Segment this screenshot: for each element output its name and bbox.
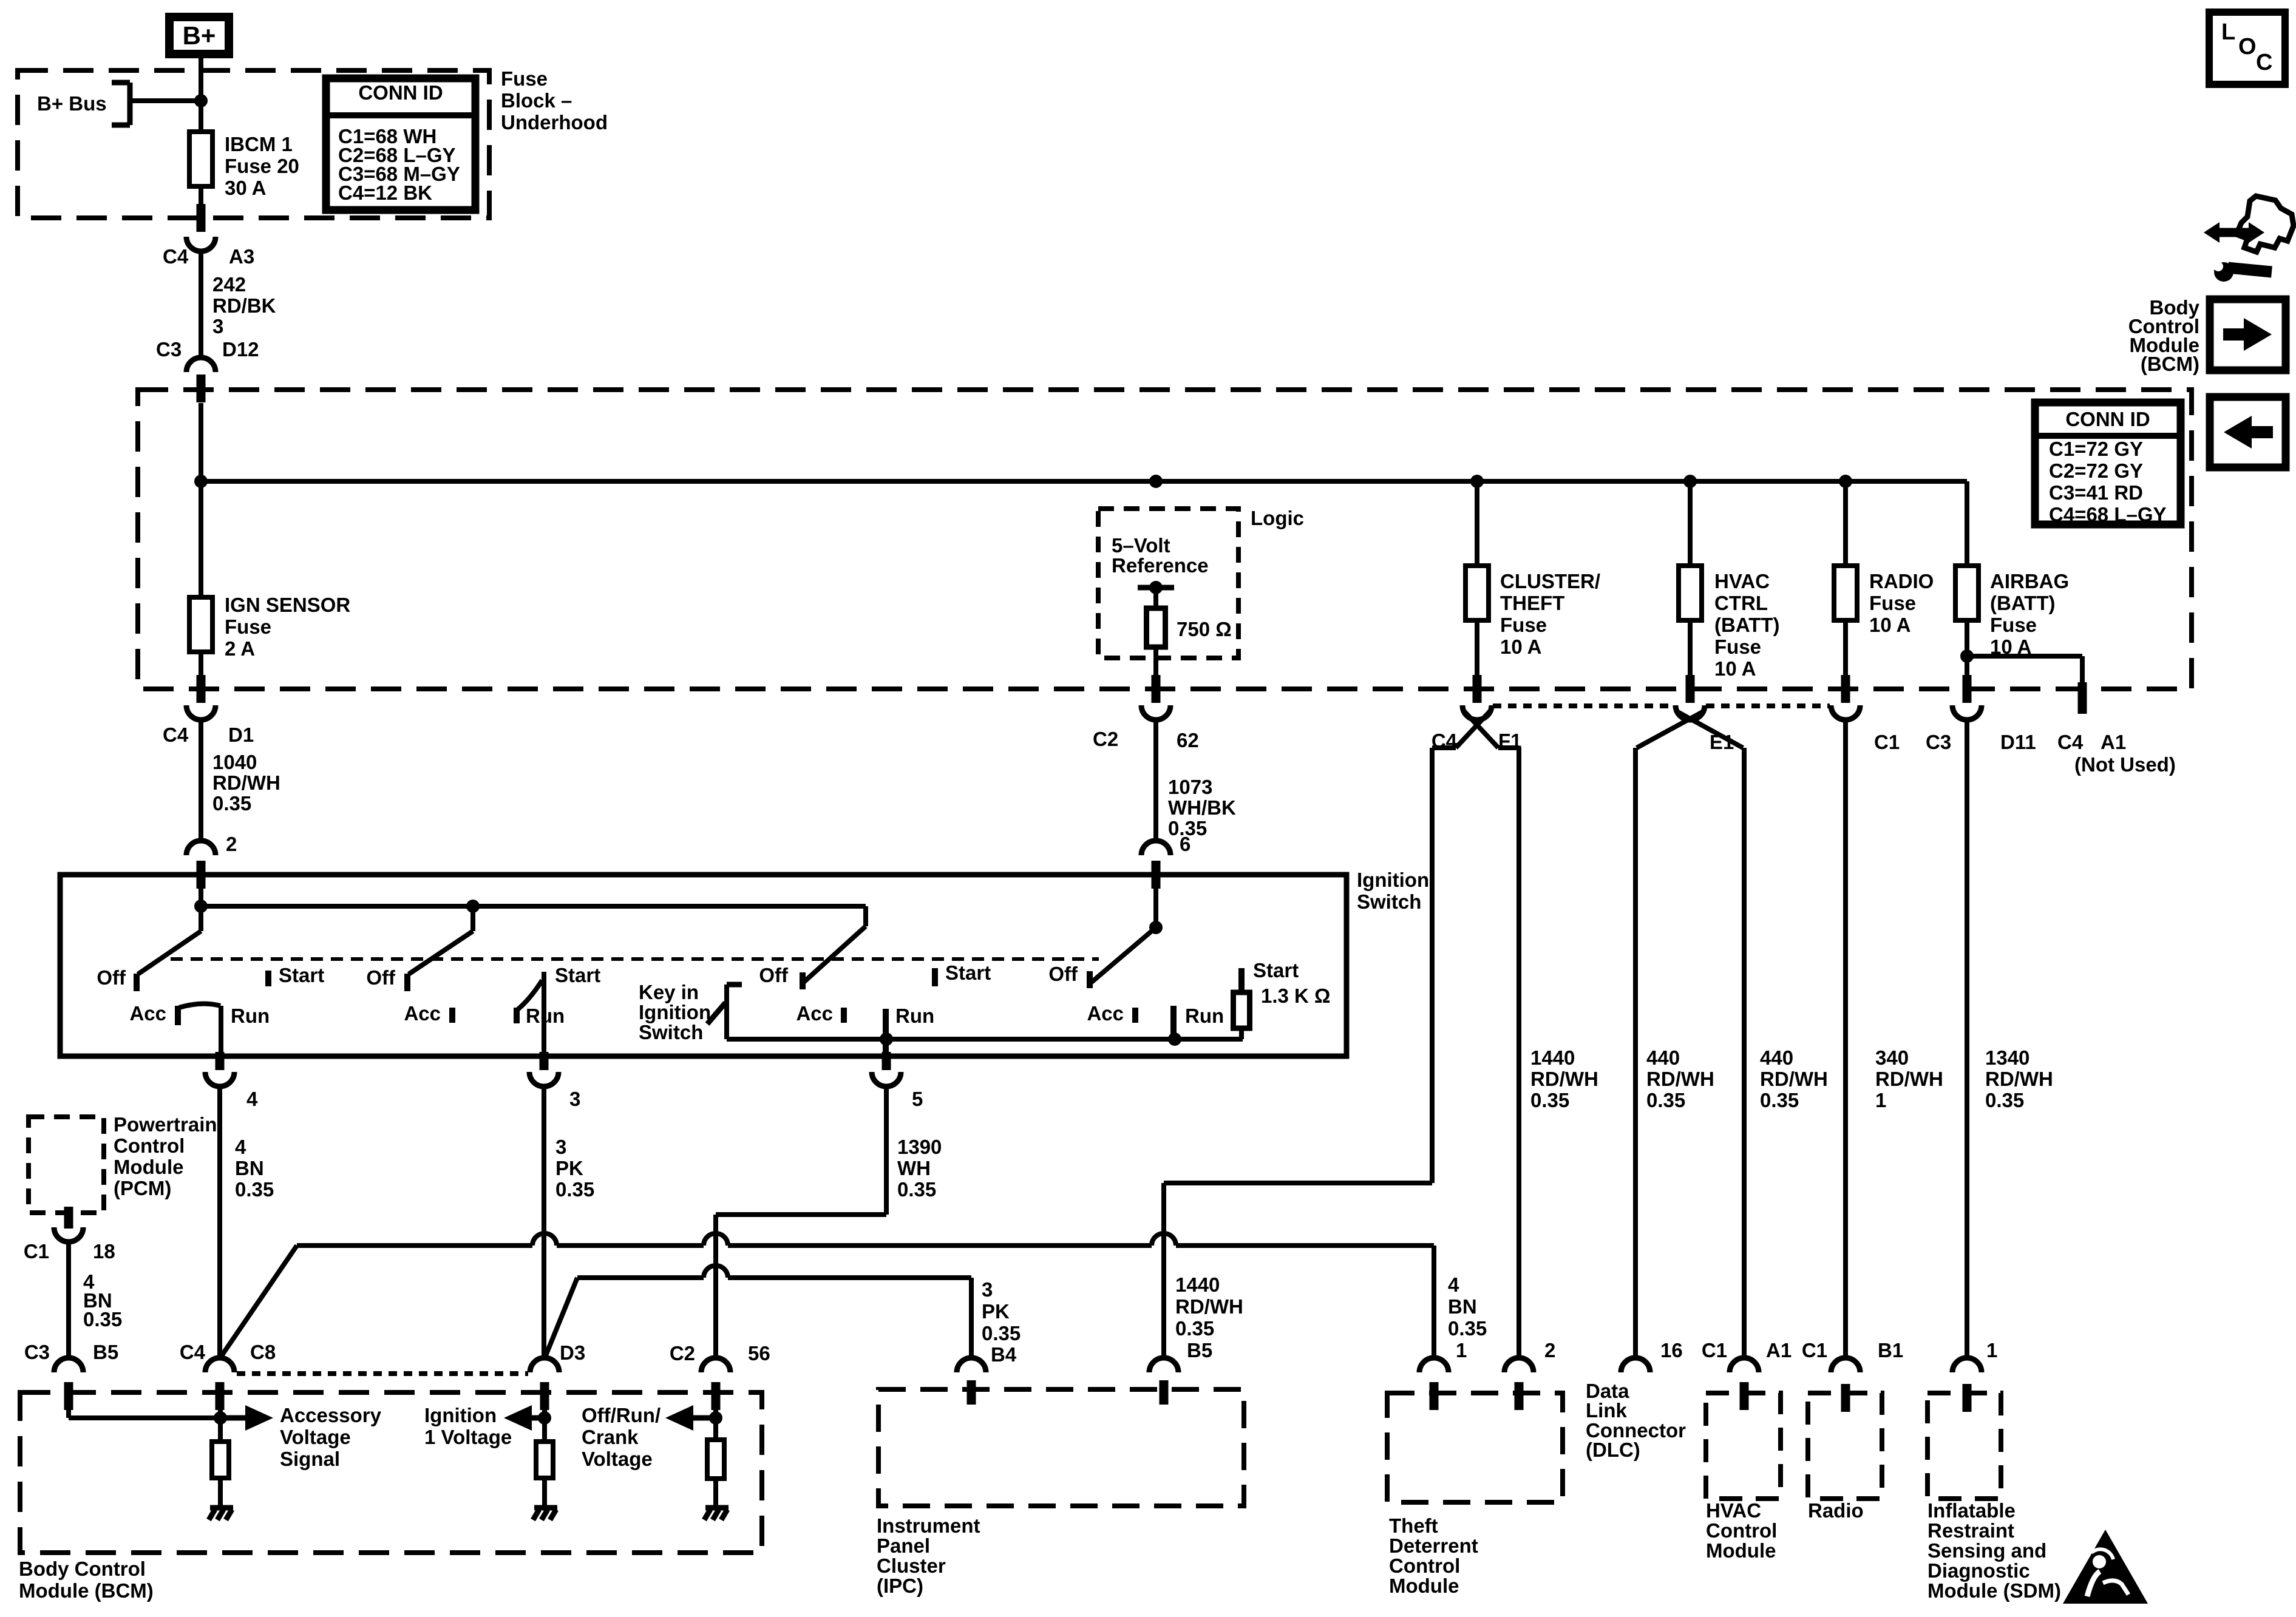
svg-text:0.35: 0.35	[897, 1178, 936, 1201]
svg-text:WH: WH	[897, 1157, 931, 1179]
svg-text:0.35: 0.35	[1760, 1089, 1799, 1111]
svg-text:Key in: Key in	[639, 981, 699, 1003]
svg-text:HVAC: HVAC	[1706, 1499, 1761, 1522]
svg-text:THEFT: THEFT	[1500, 592, 1564, 614]
svg-text:Diagnostic: Diagnostic	[1927, 1559, 2030, 1582]
svg-text:Ignition: Ignition	[1357, 869, 1429, 891]
svg-text:Off: Off	[366, 966, 396, 989]
svg-text:(PCM): (PCM)	[114, 1177, 171, 1199]
svg-text:A1: A1	[1766, 1339, 1792, 1361]
svg-text:B5: B5	[93, 1341, 118, 1363]
svg-text:Fuse: Fuse	[1500, 614, 1547, 636]
svg-text:Signal: Signal	[280, 1448, 340, 1470]
svg-text:C: C	[2256, 50, 2272, 75]
svg-text:4: 4	[235, 1136, 246, 1158]
svg-text:1340: 1340	[1985, 1046, 2029, 1069]
svg-text:A1: A1	[2101, 731, 2126, 753]
svg-text:Acc: Acc	[796, 1002, 833, 1025]
svg-text:O: O	[2238, 34, 2257, 59]
svg-text:C3: C3	[24, 1341, 50, 1363]
svg-text:Cluster: Cluster	[877, 1554, 946, 1577]
svg-text:C2=72 GY: C2=72 GY	[2049, 459, 2143, 482]
svg-text:(IPC): (IPC)	[877, 1575, 923, 1597]
svg-text:RADIO: RADIO	[1869, 570, 1934, 592]
svg-text:750 Ω: 750 Ω	[1177, 618, 1232, 640]
svg-text:18: 18	[93, 1240, 115, 1263]
svg-text:Deterrent: Deterrent	[1389, 1534, 1478, 1557]
svg-text:Inflatable: Inflatable	[1927, 1499, 2016, 1522]
svg-text:242: 242	[212, 273, 246, 296]
svg-text:Crank: Crank	[582, 1426, 639, 1448]
svg-text:16: 16	[1660, 1339, 1683, 1361]
svg-text:Off: Off	[97, 966, 126, 989]
svg-text:Voltage: Voltage	[582, 1448, 653, 1470]
svg-text:Module: Module	[114, 1156, 183, 1178]
svg-text:(BCM): (BCM)	[2141, 353, 2199, 375]
svg-text:0.35: 0.35	[1985, 1089, 2024, 1111]
svg-text:C3: C3	[1926, 731, 1951, 753]
svg-text:Fuse: Fuse	[501, 67, 548, 90]
svg-text:RD/WH: RD/WH	[1985, 1068, 2053, 1090]
svg-text:4: 4	[1448, 1273, 1459, 1296]
svg-text:C1=72 GY: C1=72 GY	[2049, 438, 2143, 460]
svg-text:Fuse: Fuse	[225, 615, 271, 638]
svg-text:RD/BK: RD/BK	[212, 294, 276, 317]
svg-text:RD/WH: RD/WH	[1760, 1068, 1828, 1090]
svg-text:PK: PK	[982, 1300, 1010, 1323]
svg-text:Acc: Acc	[404, 1002, 441, 1025]
svg-text:Ignition: Ignition	[639, 1001, 711, 1023]
svg-text:2 A: 2 A	[225, 637, 255, 660]
svg-text:1: 1	[1986, 1339, 1997, 1361]
svg-text:C3: C3	[156, 338, 182, 361]
svg-text:C1: C1	[24, 1240, 49, 1263]
svg-text:C2: C2	[1093, 728, 1118, 750]
svg-text:C4=12 BK: C4=12 BK	[338, 181, 432, 204]
svg-text:Panel: Panel	[877, 1534, 930, 1557]
svg-text:C4: C4	[163, 245, 189, 268]
svg-text:0.35: 0.35	[212, 792, 251, 815]
svg-text:Start: Start	[555, 964, 600, 986]
svg-text:C1: C1	[1702, 1339, 1727, 1361]
svg-text:RD/WH: RD/WH	[1175, 1295, 1243, 1318]
svg-text:C4: C4	[180, 1341, 206, 1363]
svg-text:Reference: Reference	[1112, 554, 1209, 577]
svg-text:RD/WH: RD/WH	[1646, 1068, 1714, 1090]
svg-text:C1: C1	[1874, 731, 1900, 753]
svg-text:Module (SDM): Module (SDM)	[1927, 1579, 2061, 1602]
svg-text:3: 3	[569, 1088, 580, 1110]
svg-text:5: 5	[912, 1088, 923, 1110]
svg-text:RD/WH: RD/WH	[1530, 1068, 1598, 1090]
svg-text:Switch: Switch	[639, 1021, 703, 1043]
svg-text:Instrument: Instrument	[877, 1514, 980, 1537]
svg-text:B4: B4	[991, 1343, 1017, 1366]
svg-text:RD/WH: RD/WH	[1875, 1068, 1943, 1090]
svg-text:440: 440	[1760, 1046, 1793, 1069]
svg-text:HVAC: HVAC	[1714, 570, 1770, 592]
svg-text:Link: Link	[1586, 1399, 1627, 1422]
svg-text:Start: Start	[1253, 959, 1299, 981]
svg-text:0.35: 0.35	[83, 1308, 122, 1331]
svg-text:Underhood: Underhood	[501, 111, 608, 134]
svg-text:Radio: Radio	[1808, 1499, 1864, 1522]
svg-text:Accessory: Accessory	[280, 1404, 382, 1426]
svg-text:1: 1	[1875, 1089, 1886, 1111]
svg-text:Acc: Acc	[129, 1002, 166, 1025]
svg-text:0.35: 0.35	[1448, 1317, 1487, 1340]
svg-text:Fuse 20: Fuse 20	[225, 155, 299, 177]
svg-text:C4=68 L–GY: C4=68 L–GY	[2049, 503, 2167, 526]
svg-text:RD/WH: RD/WH	[212, 771, 280, 794]
svg-text:C4: C4	[163, 724, 189, 746]
svg-text:Block –: Block –	[501, 89, 572, 112]
svg-text:Module (BCM): Module (BCM)	[19, 1579, 154, 1602]
svg-text:2: 2	[1544, 1339, 1555, 1361]
svg-text:Module: Module	[1706, 1539, 1776, 1562]
svg-text:Control: Control	[1706, 1519, 1777, 1542]
svg-text:3: 3	[982, 1278, 993, 1301]
svg-text:(BATT): (BATT)	[1990, 592, 2056, 614]
svg-text:Run: Run	[231, 1005, 270, 1027]
svg-text:Module: Module	[1389, 1575, 1459, 1597]
svg-text:(DLC): (DLC)	[1586, 1439, 1640, 1461]
svg-text:BN: BN	[235, 1157, 264, 1179]
svg-text:Off: Off	[1048, 963, 1078, 985]
svg-text:CLUSTER/: CLUSTER/	[1500, 570, 1600, 592]
svg-text:1440: 1440	[1175, 1273, 1220, 1296]
svg-text:5–Volt: 5–Volt	[1112, 534, 1170, 557]
svg-text:1040: 1040	[212, 751, 257, 773]
svg-text:D12: D12	[222, 338, 259, 361]
svg-text:1390: 1390	[897, 1136, 942, 1158]
svg-text:Control: Control	[114, 1134, 185, 1157]
svg-text:0.35: 0.35	[1530, 1089, 1569, 1111]
svg-text:C8: C8	[250, 1341, 276, 1363]
svg-text:Powertrain: Powertrain	[114, 1113, 217, 1136]
svg-text:1.3 K Ω: 1.3 K Ω	[1261, 985, 1331, 1007]
svg-text:Theft: Theft	[1389, 1514, 1438, 1537]
svg-text:PK: PK	[555, 1157, 583, 1179]
svg-text:Run: Run	[1185, 1005, 1224, 1027]
svg-text:0.35: 0.35	[555, 1178, 594, 1201]
svg-text:D1: D1	[228, 724, 254, 746]
svg-text:Voltage: Voltage	[280, 1426, 351, 1448]
svg-text:Body Control: Body Control	[19, 1558, 146, 1580]
svg-text:10 A: 10 A	[1714, 657, 1756, 680]
svg-text:1440: 1440	[1530, 1046, 1575, 1069]
svg-text:3: 3	[212, 315, 223, 337]
svg-text:Fuse: Fuse	[1714, 636, 1761, 658]
svg-text:IBCM 1: IBCM 1	[225, 133, 293, 155]
svg-text:1: 1	[1456, 1339, 1467, 1361]
svg-text:0.35: 0.35	[1646, 1089, 1685, 1111]
svg-text:Acc: Acc	[1087, 1002, 1124, 1025]
svg-text:(Not Used): (Not Used)	[2074, 753, 2176, 776]
svg-text:D11: D11	[2000, 731, 2036, 753]
svg-text:0.35: 0.35	[1175, 1317, 1214, 1340]
svg-text:Off/Run/: Off/Run/	[582, 1404, 661, 1426]
svg-text:56: 56	[748, 1342, 770, 1364]
svg-text:BN: BN	[1448, 1295, 1477, 1318]
svg-text:(BATT): (BATT)	[1714, 614, 1780, 636]
svg-text:C3=41 RD: C3=41 RD	[2049, 481, 2143, 504]
svg-text:0.35: 0.35	[235, 1178, 274, 1201]
svg-text:Ignition: Ignition	[424, 1404, 497, 1426]
svg-text:A3: A3	[229, 245, 254, 268]
svg-text:D3: D3	[560, 1341, 585, 1364]
svg-text:4: 4	[246, 1088, 258, 1110]
svg-text:440: 440	[1646, 1046, 1680, 1069]
svg-text:6: 6	[1180, 833, 1190, 855]
svg-text:C2: C2	[670, 1342, 695, 1364]
svg-text:10 A: 10 A	[1500, 636, 1541, 658]
svg-text:L: L	[2221, 19, 2235, 45]
svg-text:Fuse: Fuse	[1990, 614, 2037, 636]
svg-text:Fuse: Fuse	[1869, 592, 1916, 614]
svg-text:0.35: 0.35	[982, 1322, 1021, 1344]
svg-text:Switch: Switch	[1357, 890, 1421, 913]
svg-text:CONN ID: CONN ID	[358, 81, 443, 104]
svg-text:Control: Control	[1389, 1554, 1460, 1577]
svg-text:WH/BK: WH/BK	[1168, 796, 1236, 819]
svg-text:30 A: 30 A	[225, 177, 266, 199]
svg-text:CTRL: CTRL	[1714, 592, 1768, 614]
svg-text:1073: 1073	[1168, 776, 1212, 798]
svg-text:Start: Start	[945, 961, 991, 984]
svg-text:Restraint: Restraint	[1927, 1519, 2014, 1542]
svg-text:1 Voltage: 1 Voltage	[424, 1426, 512, 1448]
svg-text:C1: C1	[1802, 1339, 1827, 1361]
svg-text:B+: B+	[183, 21, 216, 50]
svg-text:Off: Off	[759, 964, 789, 986]
svg-text:3: 3	[555, 1136, 566, 1158]
svg-text:Start: Start	[279, 964, 324, 986]
svg-text:Logic: Logic	[1251, 507, 1304, 529]
svg-text:Run: Run	[895, 1005, 934, 1027]
svg-text:10 A: 10 A	[1869, 614, 1911, 636]
svg-text:B+ Bus: B+ Bus	[37, 92, 107, 115]
svg-text:Sensing and: Sensing and	[1927, 1539, 2046, 1562]
svg-text:CONN ID: CONN ID	[2065, 408, 2150, 430]
svg-text:2: 2	[226, 833, 237, 855]
svg-text:C4: C4	[2057, 731, 2084, 753]
svg-text:B1: B1	[1878, 1339, 1903, 1361]
svg-text:62: 62	[1177, 729, 1199, 751]
svg-text:340: 340	[1875, 1046, 1909, 1069]
svg-text:IGN SENSOR: IGN SENSOR	[225, 594, 350, 616]
svg-text:B5: B5	[1187, 1339, 1212, 1361]
svg-text:AIRBAG: AIRBAG	[1990, 570, 2069, 592]
